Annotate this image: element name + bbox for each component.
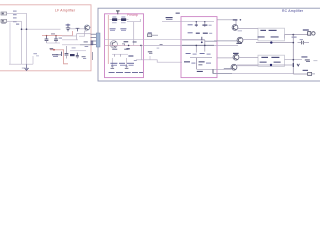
junction b [26,28,28,30]
label under speaker wire [292,37,297,38]
junction bus a [128,45,130,47]
preamp text row2 b [121,29,126,32]
component lower out b [306,61,310,62]
red junction [53,49,55,51]
wire q4 out [243,39,258,41]
preamp text block r2c [129,64,134,67]
preamp text row1 a [110,28,116,29]
driver text r3d [207,54,211,55]
driver text r4a [184,61,190,62]
wire into driver [162,21,182,23]
net label GND text [16,24,19,25]
preamp bottom text d [132,72,138,73]
driver dark vertical [201,37,203,41]
wire input bottom [7,20,22,22]
wire rv2 vertical [149,56,151,60]
junction c4 [55,35,56,36]
capacitor C7 [166,19,173,21]
box3 text b [269,30,277,31]
net label IN3 [13,17,17,18]
label R2 [121,17,125,18]
preamp mid wire [112,53,128,55]
wire lower out [285,59,303,61]
driver comp r2a [196,33,200,34]
label lower out [301,56,307,57]
wire ic feed top [62,35,77,37]
diode D1 [128,55,133,56]
junction bus tick [122,44,125,46]
label mid a [82,56,86,57]
label q4 [236,43,241,44]
label bus tick text [160,44,163,45]
label near IC [84,41,88,42]
box3 text c [258,36,265,37]
capacitor C8 [298,41,310,45]
transistor Q2 [110,41,117,48]
net label IN4 [13,21,17,22]
wire q6 base drop [223,68,225,71]
wire r1-r2 [117,19,121,21]
junction blob bottom [270,64,272,66]
label R1 [112,17,116,18]
driver v below bus b [204,46,206,52]
label C1 [66,24,71,25]
svg-text:LF Amplifier: LF Amplifier [55,9,76,13]
preamp text block r1b [119,63,125,64]
component lower out a [305,59,310,60]
preamp bottom text c [125,72,131,73]
box3 text d [271,36,279,37]
ground [24,64,29,70]
wire mid low path [136,60,182,62]
IC pin 1 [91,33,97,35]
bottom node vertical [212,69,214,73]
junction bus c [196,45,198,47]
wire vertical b [26,13,28,64]
label q2 b [133,41,137,42]
resistor R2 [121,18,126,21]
label mid b [83,57,86,60]
junction q3 top [240,19,242,21]
driver v below bus a [195,46,197,53]
wire input top [7,12,27,14]
driver bottom text2 [198,64,202,65]
faint mark right [313,59,317,62]
driver v1 [195,22,197,27]
driver text r4c [199,61,205,62]
wire mid horizontal [70,50,86,52]
preamp text block r1c [127,63,134,64]
junction a [21,28,23,30]
wire q6 out upper [237,65,258,67]
driver bottom text [197,71,203,72]
power entry tick [117,11,119,14]
junction driver b [204,21,205,22]
red supply riser [72,31,74,36]
resistor dark vertical [61,52,63,56]
driver bottom wire [197,68,232,70]
junction speaker [292,34,294,36]
supply tick dark [292,63,294,67]
wire q6 out lower [237,64,293,66]
preamp text block r2a [111,64,117,67]
label text block lower left [52,54,58,55]
driver text r4b [191,63,195,64]
label preamp mid a [112,49,117,50]
mid bus 45 dark segment [182,44,214,46]
driver v3 [204,40,206,46]
net label IN2 [13,14,17,15]
IC pin 2 [91,37,97,39]
preamp v2 end bar [125,67,129,69]
wire vertical shield [9,22,11,64]
red wire lower left [50,49,64,51]
wire q1 collector [89,26,91,28]
label lower left c [36,54,39,57]
resistor R3 [70,54,75,56]
wire signal bus [22,28,61,30]
wire preamp v1 [111,58,113,69]
wire q3 out [238,28,258,30]
section box driver stage [181,17,217,78]
junction blob mid [270,41,272,43]
driver comp r2b [203,33,208,34]
driver top wire [182,21,214,23]
preamp bottom text e [139,72,143,73]
V mark [297,64,299,66]
label bottom connector [303,70,308,71]
section box preamp stage [105,14,144,78]
resistor R1 [112,18,117,21]
svg-text:RC Amplifier: RC Amplifier [282,9,304,13]
preamp v2 tick [126,65,128,67]
label mid low c [157,48,160,49]
wire c1-c2 [69,28,76,30]
wire q6 base [224,68,231,70]
label near IC 2 [85,46,89,47]
wire q1 emitter [79,30,86,36]
red wire in preamp [107,15,109,64]
ground arrow mark [22,67,25,70]
wire ic riser [76,34,78,40]
wire under caps [47,42,61,44]
label mid low b [149,52,152,55]
capacitor C5 [65,46,69,59]
label R1 value [112,21,117,24]
IC pin block [91,41,94,46]
capacitor C1 [66,24,70,32]
wire dark low [56,54,62,56]
wire rv1 vertical [141,46,143,60]
connector J1 shell mark [1,23,5,24]
preamp mid drop b [120,54,122,56]
wire ic feed upper [77,33,91,35]
wire ic feed low [62,44,80,46]
wire q4 base [214,40,237,42]
wire r1 left [110,19,113,21]
capacitor C3 [45,36,49,43]
driver v2 [204,22,206,27]
IC pin 3 [91,40,97,42]
junction driver a [196,21,197,22]
capacitor C4 [54,36,58,43]
label above driver box [176,13,180,14]
trimmer RV1 [148,34,159,37]
driver v4 [196,58,198,70]
label mid low d [126,48,129,49]
connector J1 pin 2 [1,19,7,22]
preamp v1 end bar [111,67,115,69]
section box LF Amplifier [0,5,91,71]
box4 text c [260,62,267,63]
junction bus d [204,45,206,47]
junction c3 [46,35,47,36]
wire ic feed mid [62,39,78,41]
label R2 value [121,21,126,24]
label q2 a [124,41,129,42]
capacitor C6 [76,53,79,59]
label lower left a [50,48,54,49]
bottom long wire dark seg [213,73,232,75]
preamp v1 tick [111,65,113,67]
driver wire 57 [190,57,212,59]
wire ic feed low dark [80,44,91,46]
connector J1 pin 1 [1,12,7,15]
box3 text a [260,30,266,31]
label C4 value [59,38,62,39]
IC U1 body [96,33,100,47]
preamp smudge [134,60,137,61]
supply rail vertical [292,35,294,74]
svg-text:Preamp: Preamp [127,13,138,17]
driver wire 41 [205,40,217,42]
label q5 [233,53,239,54]
wire to q3 [217,20,236,25]
junction rail [293,42,295,44]
wire box3 out stub [284,35,286,39]
net label IN1 [13,11,17,12]
preamp text row2 a [110,29,115,32]
wire q5 base [217,57,233,59]
IC pin 4 [91,43,97,45]
transistor Q5 [233,54,239,60]
label C8 [300,38,303,41]
transistor Q4 [237,37,243,43]
capacitor C7 label [166,17,173,18]
label lower left b [33,53,37,54]
label above C5 [72,47,76,48]
wire preamp out [127,22,134,46]
transistor Q6 [231,64,237,70]
driver text r4d [206,63,211,64]
label preamp mid b [124,49,128,50]
preamp text block r2b [120,64,127,67]
wire c2-q1 [79,28,85,30]
output pair box top [258,28,285,41]
wire vertical c [32,56,34,64]
preamp text block r1a [110,63,117,64]
output pair box bottom [258,55,285,66]
wire ground bus [9,63,33,65]
driver text r2a [188,32,193,33]
label RV1 [148,32,152,33]
capacitor C2 [76,28,80,31]
junction lower [293,59,295,61]
driver comp r1a [195,25,198,26]
transistor Q1 [84,25,89,30]
wire preamp v2 [126,58,128,69]
box4 text b [271,57,279,58]
driver comp r1c [209,25,212,26]
wire r2 right [126,19,128,21]
junction bus b [140,45,142,47]
mid bus 39 [105,38,205,40]
driver blob [201,41,203,43]
bottom right wire [293,73,307,75]
label near rail [51,33,55,34]
driver text r3b [193,54,197,55]
section box RC Amplifier [98,8,320,81]
preamp bottom text a [109,72,115,73]
driver text r3a [186,53,191,54]
speaker LS1 [308,32,315,36]
preamp bottom text b [116,72,123,73]
box4 text d [274,62,281,63]
driver comp r2c [209,33,212,34]
preamp text row1 b [120,28,126,29]
label LS1 [303,29,309,30]
output rail mid [256,42,293,44]
preamp mid drop a [114,54,116,56]
box4 text a [261,57,268,58]
wire q5 out [239,56,258,58]
transistor Q3 [232,25,238,31]
driver wire 40 [182,39,205,41]
driver comp r1b [202,25,207,26]
output connector J2 [308,72,315,75]
red supply rail [42,35,73,37]
wire vertical a [21,21,23,64]
wire ic vertical low [92,52,94,60]
power entry arrow [116,10,120,11]
red wire lower vertical [64,50,69,64]
driver text r3c [200,53,205,54]
label q3 [233,19,238,20]
mid bus 45 [105,45,145,47]
wire preamp stub up [134,19,141,22]
label mid low a [148,51,152,52]
label q3 below [238,29,242,32]
bottom long wire [213,73,293,75]
wire speaker feed [285,34,308,36]
driver text r1a [188,24,193,25]
